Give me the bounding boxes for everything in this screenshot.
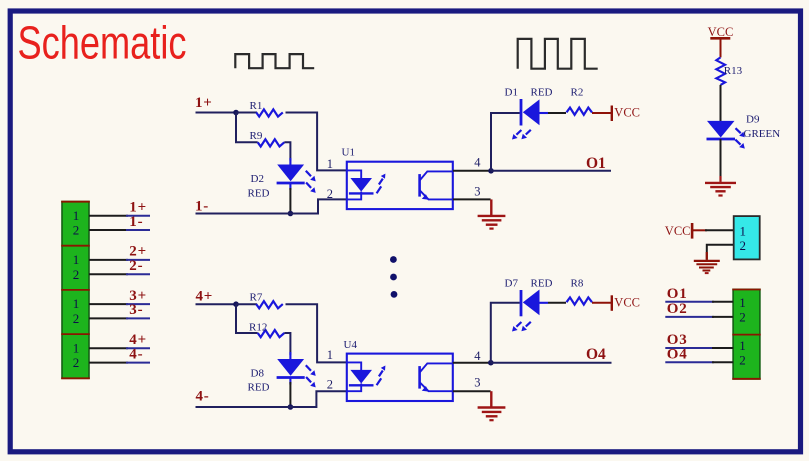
wire 1- to U1 pin2 [196,199,347,213]
J1 pin wires [89,216,150,363]
svg-text:O1: O1 [667,286,688,302]
wire P1 pin2 to ground [707,245,734,260]
svg-text:1: 1 [327,348,333,362]
ground D9 [705,183,736,196]
svg-text:4+: 4+ [196,288,214,304]
ground ch1 [478,199,506,228]
svg-text:1: 1 [739,295,746,310]
wire U4 pin3 to ground [453,390,491,392]
svg-text:D1: D1 [505,86,518,98]
diode D9 LED [707,121,745,149]
wire 4+ input [196,303,237,305]
diode D1 LED [512,99,548,140]
svg-text:D7: D7 [505,278,519,290]
svg-text:2: 2 [739,353,746,368]
wire O1 out [665,301,733,303]
wire D1 to R2 [548,112,566,114]
svg-text:R9: R9 [250,130,263,142]
resistor R1 [256,109,283,116]
svg-text:R8: R8 [571,278,584,290]
svg-text:D9: D9 [746,114,760,126]
svg-text:Schematic: Schematic [18,17,187,69]
svg-text:O4: O4 [586,346,606,363]
wire VCC to P1 pin1 [705,229,734,231]
wire 4- to U4 pin2 [196,391,347,407]
svg-text:4: 4 [474,349,481,363]
svg-text:2: 2 [327,378,333,392]
svg-text:1-: 1- [129,214,143,230]
svg-text:VCC: VCC [614,106,640,120]
diode D8 LED [277,352,316,387]
connector P1 power header [734,216,760,259]
junction ch1 input [233,110,239,116]
power VCC connector [665,223,707,239]
J1 pin numbers [73,208,80,370]
continuation dots [390,256,397,298]
svg-text:4-: 4- [196,389,210,405]
svg-text:RED: RED [531,278,553,290]
svg-text:2: 2 [739,238,746,253]
wire U4 pin4 to junction [453,362,491,364]
waveform output symbol [518,39,598,69]
svg-text:RED: RED [531,86,553,98]
connector J2 output header [732,289,760,379]
svg-text:1: 1 [73,340,80,355]
wire junction to R7 [236,303,257,305]
wire O1 [491,170,611,172]
op-amp U4 optocoupler [347,354,453,401]
svg-text:RED: RED [248,382,270,394]
svg-text:D2: D2 [251,173,264,185]
power VCC ch4 [612,295,640,311]
wire junction to R1 [236,112,257,114]
svg-text:D8: D8 [251,367,265,379]
svg-text:2: 2 [327,187,333,201]
junction ch1 return [288,211,294,217]
op-amp U1 optocoupler [347,162,453,209]
svg-text:1: 1 [73,252,80,267]
resistor R12 [258,330,285,337]
net labels J1 [129,200,147,363]
svg-text:O4: O4 [667,347,688,363]
wire O2 out [665,316,733,318]
ground P1 [694,252,720,273]
svg-text:O1: O1 [586,155,606,172]
junction O4 [488,360,494,366]
power VCC ch1 [612,106,640,122]
svg-text:1: 1 [73,208,80,223]
svg-text:2: 2 [73,223,80,238]
waveform input symbol [235,54,314,68]
wire junction to R12 [236,304,258,333]
wire O3 out [665,347,733,349]
wire D2 cathode to 1- [289,188,291,214]
svg-text:R1: R1 [250,100,263,112]
svg-text:1: 1 [327,157,333,171]
junction ch4 input [233,301,239,307]
J2 pin numbers [739,295,746,367]
wire R2 to VCC [592,112,612,114]
svg-text:1: 1 [73,296,80,311]
wire R7 to U4 pin1 [286,304,347,362]
svg-text:R7: R7 [250,292,263,304]
connector J1 input terminal block [61,202,90,379]
svg-text:2: 2 [73,355,80,370]
svg-text:1+: 1+ [195,95,213,111]
wire R9 to D2 [284,142,290,160]
svg-text:4: 4 [474,156,481,170]
svg-text:RED: RED [248,187,270,199]
wire R8 to VCC [592,302,612,304]
svg-text:4-: 4- [129,346,143,362]
wire 1+ input [196,112,237,114]
wire R12 to D8 [284,333,290,355]
junction ch4 return [288,404,294,410]
svg-text:VCC: VCC [614,295,640,309]
svg-text:2-: 2- [129,258,143,274]
resistor R2 [567,108,593,115]
svg-text:3: 3 [474,376,480,390]
svg-text:2: 2 [73,267,80,282]
wire R1 to U1 pin1 [286,113,347,171]
wire junction up to D1 [491,113,520,171]
resistor R8 [567,297,593,304]
diode D7 LED [512,290,548,332]
resistor R13 [716,57,725,85]
resistor R9 [258,139,285,146]
diode D2 LED [277,158,316,193]
svg-text:R2: R2 [571,86,584,98]
wire junction to R9 [236,113,258,143]
svg-text:2: 2 [73,311,80,326]
svg-text:U1: U1 [342,146,355,158]
resistor R7 [256,301,283,308]
wire O4 [491,362,612,364]
svg-text:2: 2 [739,310,746,325]
svg-text:3-: 3- [129,302,143,318]
svg-text:U4: U4 [344,339,358,351]
svg-text:1: 1 [739,224,746,239]
junction O1 [488,168,494,174]
svg-text:1: 1 [739,338,746,353]
wire D8 cathode to 4- [289,382,291,407]
wire D9 to ground [720,139,722,176]
ground ch4 [478,391,506,420]
wire U1 pin3 to ground [453,198,491,200]
svg-text:R12: R12 [249,322,267,334]
wire U1 pin4 to junction [453,170,491,172]
svg-text:GREEN: GREEN [744,128,781,140]
svg-text:R13: R13 [724,65,743,77]
svg-text:1-: 1- [195,199,209,215]
svg-text:VCC: VCC [708,25,734,39]
wire O4 out [665,361,733,363]
power VCC rail top [708,25,734,57]
svg-text:3: 3 [474,185,480,199]
svg-text:VCC: VCC [665,224,691,238]
wire D7 to R8 [548,302,566,304]
svg-text:O2: O2 [667,301,688,317]
wire R13 to D9 [720,85,722,122]
wire junction up to D7 [491,303,520,363]
